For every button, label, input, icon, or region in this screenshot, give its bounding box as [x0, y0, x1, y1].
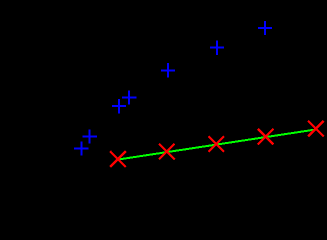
blue + marker 4 [122, 90, 136, 104]
red x marker 5 [308, 121, 324, 137]
blue + marker 7 [74, 141, 88, 155]
red x marker 4 [258, 129, 274, 145]
green fit line [118, 129, 316, 159]
red x marker 2 [159, 144, 175, 160]
blue + marker 3 [161, 63, 175, 77]
blue + marker 6 [83, 129, 97, 143]
red x marker 3 [208, 136, 224, 152]
blue + marker 5 [112, 99, 126, 113]
blue + marker 2 [210, 40, 224, 54]
red x marker 1 [110, 151, 126, 167]
blue + marker 1 [258, 21, 272, 35]
